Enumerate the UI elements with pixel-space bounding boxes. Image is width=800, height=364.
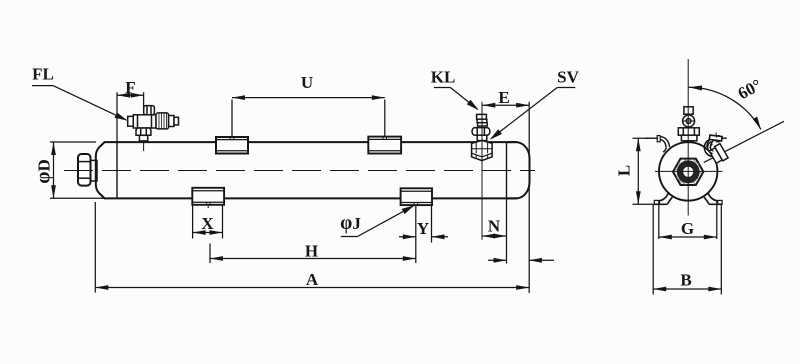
dimension Y	[399, 206, 448, 264]
dimension L	[633, 138, 655, 204]
svg-text:N: N	[488, 217, 501, 236]
dimension H	[210, 244, 416, 264]
unnamed end-cap dimension	[488, 258, 554, 263]
top left lug	[645, 136, 670, 152]
end view angled valve at 60deg	[704, 133, 728, 165]
dimension X	[193, 206, 223, 239]
end view circle	[659, 142, 717, 200]
svg-text:E: E	[498, 88, 509, 107]
dimension phiD	[50, 142, 104, 198]
leader KL	[434, 88, 481, 113]
60 degree arc	[689, 85, 764, 131]
svg-text:Y: Y	[417, 219, 429, 238]
right tube sheet	[506, 142, 508, 198]
left leg	[654, 193, 672, 204]
KL/SV centerline	[481, 102, 483, 240]
svg-text:φD: φD	[33, 159, 54, 183]
charging valve FL	[128, 106, 179, 151]
svg-text:A: A	[306, 270, 319, 289]
leader SV	[488, 88, 575, 142]
svg-text:SV: SV	[557, 68, 579, 87]
KL valve on main view	[472, 114, 490, 140]
svg-text:X: X	[201, 214, 214, 233]
leader phiJ	[341, 203, 416, 237]
dimension B	[653, 205, 721, 295]
SV plug on main view	[472, 140, 493, 160]
svg-text:H: H	[305, 242, 318, 261]
svg-text:60°: 60°	[735, 75, 765, 103]
svg-text:U: U	[301, 73, 313, 92]
end view top valve	[678, 107, 699, 141]
svg-text:L: L	[614, 165, 633, 176]
shell body outline	[96, 142, 530, 198]
bottom pad left	[192, 188, 224, 208]
dimension A	[95, 202, 529, 293]
top pad left	[216, 137, 248, 154]
central hex nut	[664, 142, 720, 196]
svg-text:G: G	[681, 219, 694, 238]
bottom pad right	[401, 188, 432, 205]
svg-text:φJ: φJ	[340, 213, 361, 234]
dimension E	[482, 102, 529, 293]
svg-text:KL: KL	[431, 68, 456, 87]
dimension G	[659, 205, 717, 239]
dimension N	[482, 198, 507, 263]
60 degree line	[704, 121, 784, 162]
leader FL	[32, 86, 129, 124]
top right lug	[707, 136, 727, 152]
centerline of shell	[64, 170, 535, 172]
svg-text:F: F	[125, 78, 135, 97]
top pad right	[368, 137, 401, 154]
dimension F	[117, 92, 144, 142]
dimension U	[232, 95, 385, 137]
center crosshair	[655, 170, 723, 172]
right leg	[704, 193, 722, 204]
svg-text:FL: FL	[32, 65, 54, 84]
svg-text:B: B	[680, 271, 691, 290]
left hex nut fitting	[78, 154, 97, 186]
left tube sheet	[116, 142, 118, 198]
